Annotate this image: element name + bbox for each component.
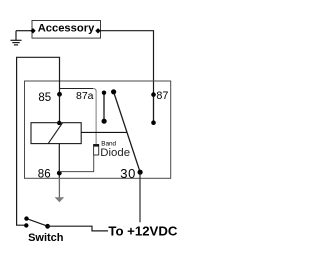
svg-text:Accessory: Accessory (38, 22, 95, 34)
relay K1 box (25, 81, 171, 178)
node switch lever pivot (24, 216, 28, 220)
svg-text:85: 85 (38, 92, 51, 104)
node 87a bottom (102, 119, 107, 124)
contact 87a stationary (103, 93, 105, 121)
node switch right terminal (45, 224, 50, 229)
diode D1 body (94, 145, 99, 155)
diode D1 band (93, 144, 99, 147)
node 30 (138, 170, 143, 175)
wire accessory to 87 (101, 31, 154, 95)
wire coil to 86 (58, 144, 60, 178)
node armature top (111, 89, 116, 94)
svg-text:Diode: Diode (100, 147, 130, 159)
diode top lead (93, 89, 96, 145)
ground arrow 86 (55, 197, 65, 202)
svg-text:Switch: Switch (28, 232, 64, 244)
accessory box (32, 21, 101, 39)
svg-text:86: 86 (38, 168, 51, 180)
node coil top (57, 121, 61, 125)
node accessory right terminal (95, 28, 100, 33)
node switch left terminal (24, 223, 28, 227)
node 87 bottom (151, 120, 156, 125)
svg-text:30: 30 (120, 166, 136, 181)
wire switch to +12VDC (48, 226, 108, 231)
node 87 top (151, 92, 156, 97)
relay coil (31, 123, 81, 144)
switch S1 lever (27, 219, 48, 227)
mechanical link coil to armature (81, 131, 127, 133)
wire diode to 85 riser horizontal (60, 88, 94, 90)
wire 85 riser to left rail (17, 57, 60, 225)
wire ground to accessory (16, 30, 32, 32)
node 87a top (102, 91, 106, 95)
ground (11, 31, 22, 45)
svg-text:87a: 87a (76, 90, 94, 102)
node accessory left terminal (30, 28, 35, 33)
wire 86 stem below box (58, 178, 60, 198)
svg-text:To +12VDC: To +12VDC (108, 224, 177, 239)
node 85 (57, 92, 62, 97)
contact 87 (153, 95, 155, 123)
wire 86 to diode (59, 155, 93, 172)
wire 30 to +12VDC (139, 172, 141, 222)
node 86 (57, 171, 62, 176)
wire 85 to coil (59, 94, 61, 122)
svg-text:87: 87 (156, 90, 168, 102)
armature 30 common (114, 92, 141, 172)
